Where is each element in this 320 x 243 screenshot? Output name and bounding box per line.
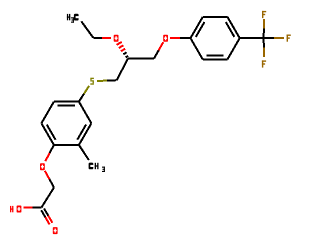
label: F top fluorine: [262, 11, 263, 18]
wire: bond O3-CH2: [45, 171, 50, 179]
label: F bottom fluorine: [262, 60, 263, 67]
wire: bond C-F right half black half gold: [264, 37, 274, 39]
wire: bond ring-O3 half black half red: [50, 145, 54, 153]
ring A aromatic inner double bond top: [58, 105, 76, 107]
ring: 4-(trifluoromethyl)phenyl benzene ring: [191, 17, 203, 38]
label: O1 ethoxy oxygen: [114, 35, 119, 42]
wire: bond C-F bottom half black half gold: [263, 38, 265, 47]
ring A aromatic inner double bond lower-left: [47, 125, 56, 140]
wire: bond CH2-carboxyl C: [42, 188, 55, 208]
wire: bond C-F top half black half gold: [263, 29, 265, 39]
label: HO hydroxyl: [10, 206, 11, 212]
label: H3C methyl of ethoxy: [67, 14, 68, 20]
label: O3 phenoxy oxygen: [40, 163, 45, 170]
node: C=O carbonyl double bond: [44, 209, 48, 216]
label: S thioether sulfur: [90, 78, 94, 79]
wire: bond CH2-S half black half olive: [107, 79, 117, 81]
label: F right fluorine: [287, 35, 288, 42]
wire: bond H3C-CH2: [81, 21, 93, 38]
ring B aromatic inner double bond upper-left: [196, 22, 205, 37]
wire: bond CH2-O2 half black half red: [154, 50, 159, 58]
wire: bond S-phenyl ring: [84, 86, 89, 94]
ring: 2-methylphenoxy benzene ring: [54, 101, 79, 103]
wire: bond C-OH half black half red: [33, 206, 42, 208]
label: O2 aryl ether oxygen: [163, 35, 168, 42]
wire: bond CH2-O1 half black half red: [93, 37, 102, 39]
label: CH3 methyl on ring: [89, 163, 94, 170]
ring B aromatic inner double bond bottom: [206, 54, 223, 56]
wire: bond ring-CH3: [79, 145, 89, 160]
wire: bond ring-CF3 carbon: [240, 37, 264, 39]
label: O4 carbonyl oxygen: [53, 227, 58, 234]
ring B aromatic inner double bond upper-right: [226, 22, 235, 37]
wire: bond chiral C-CH2: [128, 58, 154, 60]
wire: bond chiral C-CH2 toward S: [117, 59, 128, 81]
node: hashed stereo wedge O1 to chiral carbon: [117, 42, 122, 45]
ring A aromatic inner double bond lower-right: [77, 125, 86, 140]
wire: bond O2-phenyl ring: [170, 37, 180, 39]
